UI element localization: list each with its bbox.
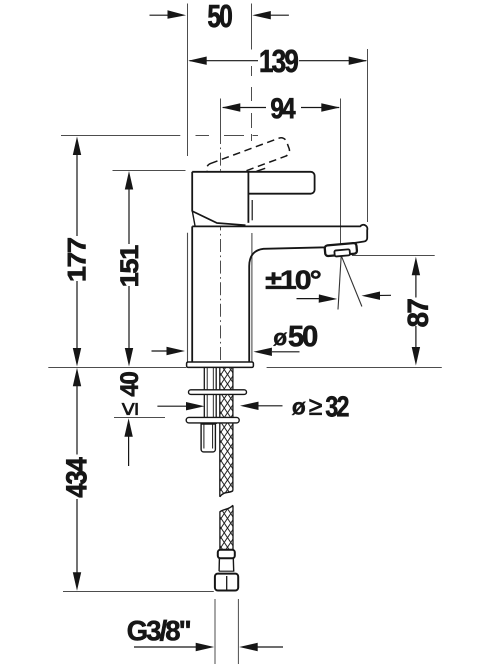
label 94 bbox=[271, 98, 295, 119]
arrow 87 top bbox=[412, 257, 420, 276]
ext line y=255.3 bbox=[352, 255, 435, 257]
label 50 of diameter 50 bbox=[289, 326, 317, 347]
arrow left of base bbox=[152, 347, 186, 355]
arrow toward right spray line bbox=[362, 292, 392, 300]
label 40 bbox=[120, 372, 138, 396]
arrow toward left spray line bbox=[297, 294, 338, 302]
extension line left x=187 bbox=[187, 4, 189, 157]
chamfer bbox=[192, 211, 246, 225]
top of body ref line y=170.6 bbox=[113, 170, 186, 172]
left facet bbox=[192, 212, 195, 226]
dim line 139 bbox=[190, 60, 367, 62]
label less-equal bbox=[122, 403, 138, 415]
arrow right of 50 bbox=[252, 11, 289, 19]
label G3/8 inch bbox=[128, 620, 190, 641]
arrow 434 top bbox=[73, 368, 81, 387]
spray line right bbox=[341, 256, 362, 307]
head block right edge bbox=[247, 172, 249, 223]
extension line right x=367.5 bbox=[367, 49, 369, 222]
label 87 bbox=[408, 299, 429, 326]
arrow 434 bottom bbox=[73, 572, 81, 591]
arrow left of shank bbox=[157, 402, 204, 410]
extension lines bbox=[214, 599, 216, 664]
body outline bbox=[192, 225, 367, 362]
extension line right x=251.5 (segments) bbox=[251, 4, 253, 142]
arrow right of shank bbox=[240, 402, 283, 410]
head outline: top edge + cap bar bbox=[192, 172, 314, 194]
top of lever ref line y=136 bbox=[61, 135, 258, 137]
washer ref line y=417.3 bbox=[114, 417, 165, 419]
label 50 bbox=[208, 5, 232, 28]
dim line 87 bbox=[415, 271, 417, 351]
label greater-equal bbox=[310, 399, 322, 415]
arrow left of 50 bbox=[150, 10, 187, 18]
label 177 bbox=[68, 238, 86, 280]
bottom ref line y=591.3 bbox=[63, 591, 214, 593]
label 434 bbox=[66, 457, 87, 497]
arrow 177 bottom bbox=[73, 348, 81, 367]
dim line 151 bbox=[128, 186, 130, 353]
dim line 434 bbox=[76, 382, 78, 577]
dim line 94 bbox=[223, 107, 339, 109]
outer base cylinder lines (ø50) bbox=[187, 233, 189, 362]
counter line left y=367 bbox=[48, 367, 186, 369]
arrow 151 bottom bbox=[125, 348, 133, 367]
dim shaft 40 bbox=[128, 432, 130, 467]
arrow right of base bbox=[253, 348, 299, 356]
label 32 bbox=[326, 396, 349, 417]
head block left edge bbox=[191, 172, 193, 212]
counter line right y=367.4 bbox=[267, 367, 442, 369]
arrow 40 bbox=[124, 418, 132, 437]
extension line x=221 (body centre top) bbox=[220, 99, 222, 132]
label diameter symbol 32 bbox=[292, 402, 306, 415]
seam below cap bbox=[251, 200, 253, 220]
dim line 177 bbox=[76, 151, 78, 352]
label diameter symbol 50 bbox=[273, 333, 287, 346]
spray line left bbox=[338, 256, 341, 310]
arrow 151 top bbox=[125, 171, 133, 190]
label plus-minus 10 deg bbox=[266, 270, 321, 289]
arrow 177 top bbox=[73, 137, 81, 156]
lever stub bbox=[257, 168, 266, 171]
extension line x=340.8 (outlet centre) bbox=[340, 99, 342, 256]
arrow 87 bottom bbox=[412, 347, 420, 366]
label 139 bbox=[261, 50, 298, 73]
label 151 bbox=[121, 246, 139, 286]
